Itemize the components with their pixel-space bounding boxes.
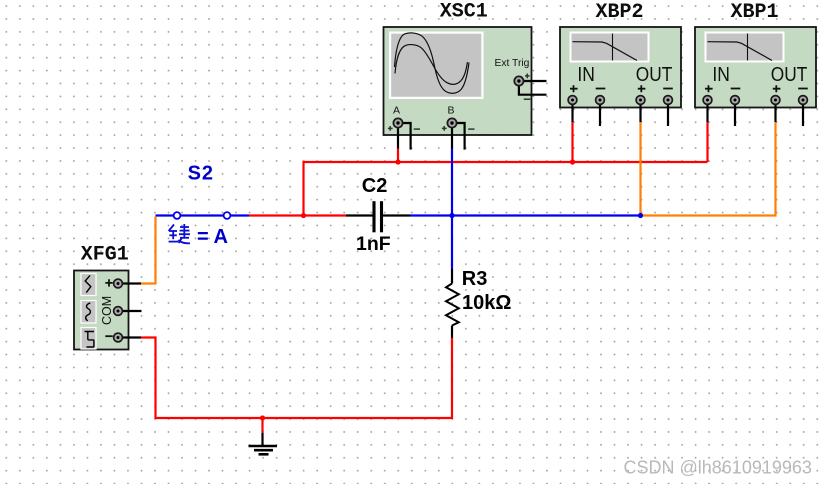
svg-text:XFG1: XFG1 (81, 244, 129, 267)
svg-text:OUT: OUT (636, 64, 673, 86)
svg-text:C2: C2 (362, 175, 388, 197)
svg-text:= A: = A (197, 226, 228, 248)
svg-text:XSC1: XSC1 (440, 1, 488, 24)
svg-text:IN: IN (712, 64, 730, 86)
svg-text:10kΩ: 10kΩ (462, 292, 511, 314)
svg-text:IN: IN (577, 64, 595, 86)
svg-text:S2: S2 (188, 163, 214, 185)
svg-text:XBP2: XBP2 (595, 1, 643, 24)
svg-text:CSDN @lh8610919963: CSDN @lh8610919963 (624, 458, 812, 478)
svg-text:OUT: OUT (771, 64, 808, 86)
svg-text:A: A (393, 105, 400, 117)
svg-text:1nF: 1nF (356, 233, 391, 255)
svg-text:Ext Trig: Ext Trig (495, 58, 530, 69)
svg-text:R3: R3 (462, 268, 488, 290)
svg-text:XBP1: XBP1 (730, 1, 778, 24)
svg-text:COM: COM (100, 296, 114, 325)
svg-text:B: B (448, 105, 455, 117)
